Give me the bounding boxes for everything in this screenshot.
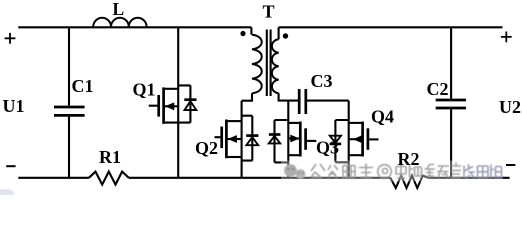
- transistor Q1 gate bar: [157, 95, 160, 117]
- svg-text:U1: U1: [3, 96, 25, 116]
- capacitor C2 bottom lead: [450, 109, 452, 178]
- capacitor C1: [54, 107, 85, 115]
- diode D4 triangle (down): [330, 136, 341, 143]
- wire Q4 bus: [348, 101, 350, 178]
- capacitor C3 left lead: [279, 100, 299, 102]
- transistor Q3 source stub: [288, 154, 300, 156]
- svg-text:Q2: Q2: [195, 138, 218, 158]
- wire bottom rail right: [428, 177, 509, 179]
- label + (left): [5, 33, 16, 44]
- svg-text:C2: C2: [427, 79, 449, 99]
- diode D4 cathode bar: [330, 143, 342, 146]
- svg-text:Q1: Q1: [133, 80, 156, 100]
- diode D4 top branch: [335, 120, 348, 162]
- inductor L: [93, 18, 146, 27]
- label − (left): [6, 165, 15, 167]
- transistor Q4 gate lead: [369, 138, 378, 140]
- wire bottom rail left: [18, 177, 89, 179]
- capacitor C3 plates: [299, 89, 306, 114]
- svg-text:Q4: Q4: [371, 107, 394, 127]
- svg-text:C1: C1: [72, 76, 94, 96]
- transistor Q3 channel bar: [299, 122, 302, 157]
- transformer T secondary winding: [272, 39, 279, 93]
- transistor Q1 drain stub: [165, 88, 178, 90]
- capacitor C2 plates: [436, 100, 466, 108]
- transistor Q2 drain stub: [228, 120, 242, 122]
- transformer T primary winding: [252, 35, 262, 94]
- resistor R2: [390, 176, 428, 188]
- diode D2 top branch: [242, 116, 253, 161]
- svg-text:L: L: [113, 0, 125, 19]
- wire Q1 bus (top rail to bottom rail): [177, 27, 179, 178]
- transistor Q4 body arrow: [349, 138, 362, 140]
- transistor Q4 source stub: [349, 154, 363, 156]
- diode D3 cathode bar: [269, 133, 281, 136]
- diode D1 cathode bar: [184, 98, 196, 101]
- diode D1 triangle: [185, 101, 197, 110]
- wire bottom rail middle: [129, 177, 391, 179]
- transistor Q4 gate bar: [367, 128, 370, 150]
- resistor R1: [89, 172, 129, 185]
- transformer T phase dot secondary: [283, 33, 288, 38]
- label − (right): [506, 164, 515, 166]
- transistor Q3 body arrow: [288, 137, 300, 139]
- transistor Q3 drain stub: [288, 122, 300, 124]
- wire C1 branch bottom: [68, 117, 70, 178]
- transformer T phase dot primary: [240, 31, 245, 36]
- transistor Q2 gate bar: [220, 127, 223, 149]
- watermark text strokes: [311, 164, 373, 179]
- diode D2 cathode bar: [246, 134, 258, 137]
- diode D1 top branch: [178, 85, 190, 122]
- label + (right): [501, 32, 512, 43]
- transistor Q2 source stub: [228, 156, 242, 158]
- transistor Q4 channel bar: [361, 122, 364, 157]
- wire C1 branch top: [68, 27, 70, 105]
- capacitor C2 top lead: [450, 27, 452, 98]
- wire secondary top rail: [279, 26, 503, 28]
- transformer T core: [267, 30, 271, 97]
- transistor Q1 body arrow: [165, 105, 178, 107]
- diode D3 triangle: [269, 136, 280, 143]
- watermark icon: [284, 164, 305, 179]
- diode D2 triangle: [246, 137, 258, 145]
- watermark at sign: [378, 165, 392, 179]
- svg-text:C3: C3: [311, 71, 333, 91]
- transistor Q4 drain stub: [349, 122, 363, 124]
- wire Q3 bus: [287, 101, 289, 178]
- transistor Q2 gate lead: [215, 136, 221, 138]
- svg-text:U2: U2: [499, 97, 521, 117]
- corner smudge: [0, 189, 14, 197]
- transformer T primary top corner: [250, 27, 252, 34]
- transistor Q2 body arrow: [228, 138, 242, 140]
- transistor Q1 source stub: [165, 122, 191, 124]
- transistor Q1 gate lead: [149, 105, 158, 107]
- watermark haze: [281, 161, 503, 182]
- wire primary top rail: [18, 26, 251, 28]
- capacitor C3 right lead: [307, 100, 349, 102]
- svg-text:T: T: [263, 2, 275, 22]
- transistor Q1 channel bar: [162, 87, 165, 124]
- diode D3 top branch: [275, 120, 289, 162]
- transformer T secondary bottom lead: [279, 93, 289, 100]
- svg-text:R1: R1: [99, 147, 121, 167]
- transistor Q3 gate lead: [307, 140, 317, 142]
- transformer T secondary top corner: [278, 27, 280, 39]
- wire Q2 bus: [241, 101, 243, 178]
- transformer T primary bottom lead: [242, 93, 252, 100]
- svg-text:R2: R2: [398, 149, 420, 169]
- transistor Q2 channel bar: [225, 120, 228, 159]
- transistor Q3 gate bar: [304, 128, 307, 150]
